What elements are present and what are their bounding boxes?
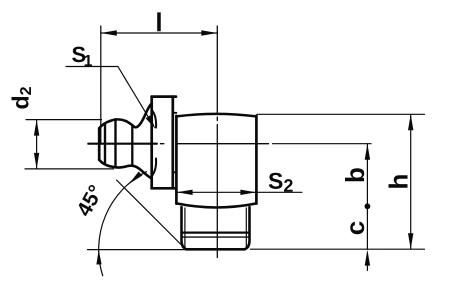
dimension l: arrow right xyxy=(201,30,217,35)
nipple head top chamfer xyxy=(99,121,110,128)
dimension 45deg: arrow at horizontal xyxy=(96,250,101,265)
dimension h: extension bottom xyxy=(251,248,425,250)
dimension b/c junction dot xyxy=(365,203,371,209)
S1 leader arrow xyxy=(146,115,156,129)
connector hex to body bottom xyxy=(173,171,177,173)
centerline vertical (thread axis) xyxy=(216,26,218,258)
hex S1 outline xyxy=(152,97,176,189)
body right face xyxy=(255,116,258,204)
dimension S2: arrow right xyxy=(240,190,256,195)
dimension c: arrow tail xyxy=(366,258,368,271)
centerline horizontal (head axis, heavy segment through head) xyxy=(88,143,157,145)
S1 leader line xyxy=(66,67,148,117)
dimension c: line xyxy=(366,206,368,249)
dimension d2: extension top xyxy=(26,119,102,121)
thread runout line 2 xyxy=(182,236,250,238)
dimension S2: arrow left xyxy=(177,190,193,195)
dimension d2: line xyxy=(36,120,38,169)
body top chamfer arc xyxy=(176,114,256,117)
threaded stud outer left xyxy=(182,207,187,249)
dimension h: line xyxy=(410,114,412,249)
dimension 45deg: arc xyxy=(99,172,147,276)
neck groove top contour xyxy=(126,103,152,127)
nipple head dome arc bottom xyxy=(110,166,125,167)
dimension c: outside arrow below xyxy=(365,250,370,266)
nipple head ball left face xyxy=(98,128,101,160)
dimension h: arrow down xyxy=(408,233,413,249)
neck groove bottom contour xyxy=(125,166,152,179)
stud bottom edge xyxy=(186,248,244,251)
thread minor line left xyxy=(184,208,186,248)
body (hex S2) left face xyxy=(175,116,178,204)
dimension d2: arrow down xyxy=(34,153,39,169)
dimension b: line xyxy=(366,144,368,207)
svg-text:l: l xyxy=(155,7,162,37)
body bottom chamfer arc xyxy=(176,203,256,207)
thread minor line right xyxy=(245,208,247,248)
centerline horizontal (body segment) xyxy=(177,143,269,145)
dimension 45deg: diagonal line xyxy=(117,180,187,250)
dimension 45deg: arrow at diagonal xyxy=(129,172,143,185)
svg-text:c: c xyxy=(340,221,370,235)
dimension h: extension top xyxy=(257,113,425,115)
head cap tangent line xyxy=(114,119,116,167)
dimension d2: extension bottom xyxy=(25,168,114,170)
nipple head bottom chamfer xyxy=(99,160,110,167)
head tip flat edge line xyxy=(104,124,106,163)
dimension l: line xyxy=(101,32,218,34)
nipple head dome arc top xyxy=(110,119,126,121)
dimension h: arrow up xyxy=(408,114,413,130)
hex S1 chamfer arc top xyxy=(152,111,156,128)
thread runout line 1 xyxy=(182,232,250,234)
dimension b: extension (axis continuation) xyxy=(273,143,372,145)
dimension d2: arrow up xyxy=(34,120,39,136)
dimension b: arrow up xyxy=(365,144,370,160)
dimension l: arrow left xyxy=(101,30,117,35)
neck groove line xyxy=(131,126,133,165)
svg-text:h: h xyxy=(384,174,414,190)
svg-text:b: b xyxy=(340,167,370,183)
dimension S2: line xyxy=(177,191,302,193)
connector hex to body top xyxy=(173,112,177,114)
dimension 45deg: horizontal reference line xyxy=(88,249,187,251)
threaded stud outer right xyxy=(245,207,250,249)
dimension l: extension line left xyxy=(100,26,102,143)
hex S1 chamfer arc bottom xyxy=(152,159,156,176)
centerline horizontal dot xyxy=(161,143,164,145)
